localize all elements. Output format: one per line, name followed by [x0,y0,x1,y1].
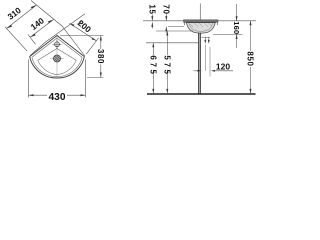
svg-text:575: 575 [162,55,171,76]
svg-text:850: 850 [246,51,255,66]
svg-text:140: 140 [29,15,47,32]
svg-text:675: 675 [148,55,157,76]
svg-text:430: 430 [49,92,66,103]
svg-text:380: 380 [96,49,105,64]
svg-text:120: 120 [216,61,230,71]
svg-text:160: 160 [232,21,241,34]
svg-text:200: 200 [76,18,94,35]
svg-text:310: 310 [6,5,24,22]
svg-text:70: 70 [161,4,170,14]
svg-text:15: 15 [147,4,156,14]
